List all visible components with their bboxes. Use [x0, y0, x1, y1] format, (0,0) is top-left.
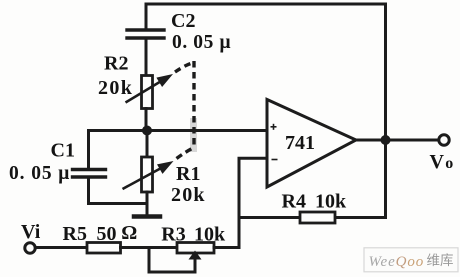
svg-text:R3: R3	[161, 223, 185, 245]
svg-text:20k: 20k	[171, 184, 206, 206]
svg-text:R1: R1	[176, 163, 200, 185]
svg-text:20k: 20k	[98, 77, 133, 99]
svg-text:维库: 维库	[427, 253, 454, 268]
svg-text:10k: 10k	[315, 191, 347, 213]
svg-text:o: o	[445, 155, 453, 172]
svg-text:741: 741	[285, 132, 315, 154]
svg-text:WeeQoo: WeeQoo	[369, 254, 425, 270]
svg-text:Vi: Vi	[21, 221, 41, 243]
svg-text:C1: C1	[51, 140, 75, 162]
svg-text:R2: R2	[104, 53, 128, 75]
svg-text:50: 50	[97, 223, 117, 245]
svg-text:Ω: Ω	[121, 222, 137, 244]
svg-text:V: V	[430, 151, 445, 173]
svg-text:R5: R5	[63, 223, 87, 245]
svg-text:10k: 10k	[194, 223, 226, 245]
svg-text:0. 05 μ: 0. 05 μ	[172, 32, 231, 53]
svg-text:C2: C2	[171, 10, 195, 32]
svg-text:R4: R4	[282, 191, 306, 213]
svg-text:0. 05 μ: 0. 05 μ	[9, 163, 70, 184]
